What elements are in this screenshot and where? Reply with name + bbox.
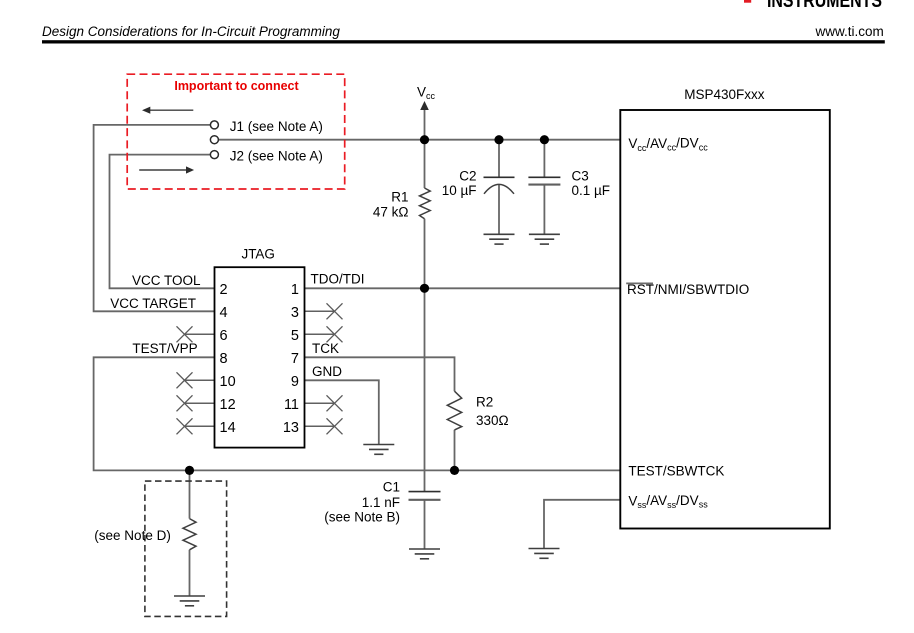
svg-text:J1 (see Note A): J1 (see Note A): [230, 119, 323, 134]
svg-text:4: 4: [220, 305, 228, 321]
svg-text:(see Note D): (see Note D): [94, 528, 171, 543]
svg-text:www.ti.com: www.ti.com: [815, 24, 884, 39]
svg-text:C3: C3: [572, 168, 589, 183]
svg-text:10 µF: 10 µF: [442, 183, 477, 198]
svg-text:0.1 µF: 0.1 µF: [572, 183, 611, 198]
svg-text:VCC TOOL: VCC TOOL: [132, 273, 201, 288]
svg-text:INSTRUMENTS: INSTRUMENTS: [767, 0, 882, 12]
svg-text:TDO/TDI: TDO/TDI: [311, 272, 365, 287]
svg-text:47 kΩ: 47 kΩ: [373, 204, 409, 219]
svg-text:3: 3: [291, 305, 299, 321]
svg-text:7: 7: [291, 351, 299, 367]
svg-text:5: 5: [291, 328, 299, 344]
svg-text:12: 12: [220, 397, 236, 413]
svg-text:RST/NMI/SBWTDIO: RST/NMI/SBWTDIO: [627, 282, 749, 297]
svg-text:9: 9: [291, 374, 299, 390]
svg-text:2: 2: [220, 282, 228, 298]
svg-text:R2: R2: [476, 395, 493, 410]
svg-text:JTAG: JTAG: [241, 247, 275, 262]
svg-text:Vcc/AVcc/DVcc: Vcc/AVcc/DVcc: [628, 136, 708, 153]
svg-text:14: 14: [220, 420, 236, 436]
svg-text:C2: C2: [459, 168, 476, 183]
svg-text:J2 (see Note A): J2 (see Note A): [230, 149, 323, 164]
svg-text:TCK: TCK: [312, 341, 339, 356]
svg-text:Design Considerations for In-C: Design Considerations for In-Circuit Pro…: [42, 24, 340, 39]
svg-text:1.1 nF: 1.1 nF: [362, 495, 400, 510]
svg-text:11: 11: [284, 397, 299, 413]
svg-text:MSP430Fxxx: MSP430Fxxx: [684, 87, 765, 102]
svg-text:TEST/VPP: TEST/VPP: [132, 341, 197, 356]
svg-text:8: 8: [220, 351, 228, 367]
svg-text:TEST/SBWTCK: TEST/SBWTCK: [628, 464, 724, 479]
svg-text:GND: GND: [312, 364, 342, 379]
svg-text:Important to connect: Important to connect: [174, 79, 299, 93]
svg-text:10: 10: [220, 374, 236, 390]
svg-text:R1: R1: [391, 190, 408, 205]
svg-text:330Ω: 330Ω: [476, 413, 509, 428]
svg-text:Vcc: Vcc: [417, 84, 436, 101]
svg-text:VCC TARGET: VCC TARGET: [110, 296, 196, 311]
svg-text:13: 13: [283, 420, 299, 436]
svg-text:(see Note B): (see Note B): [324, 509, 400, 524]
svg-text:C1: C1: [383, 480, 400, 495]
svg-text:Vss/AVss/DVss: Vss/AVss/DVss: [628, 493, 708, 510]
svg-text:1: 1: [291, 282, 299, 298]
svg-text:6: 6: [220, 328, 228, 344]
